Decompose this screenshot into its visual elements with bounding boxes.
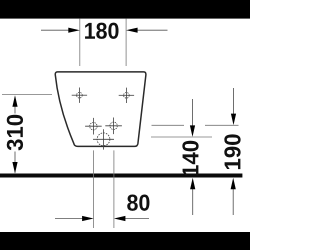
dim 80: extension lines — [94, 150, 114, 228]
dim 140: label — [182, 141, 198, 176]
wall line — [0, 174, 242, 178]
bottom letterbox bar — [0, 232, 250, 250]
hole top-right crosshair — [119, 88, 134, 103]
dim 80: arrowheads — [82, 216, 94, 221]
dim 310: label — [7, 115, 23, 151]
dim 190: upper dimension line — [233, 88, 235, 116]
hole mid-left crosshair — [85, 118, 102, 135]
dim 140: lower dimension line — [192, 186, 194, 215]
dim 140: upper dimension line — [192, 99, 194, 128]
dim 180: label — [85, 23, 118, 39]
dim 180: extension lines — [80, 19, 126, 66]
dim 310: dimension lines — [14, 97, 16, 173]
bidet body outline — [55, 72, 146, 146]
dim 140: upper arrowhead — [190, 125, 195, 136]
dim 80: label — [127, 195, 149, 211]
dim 190: upper arrowhead — [231, 114, 236, 126]
dim 140: extension line — [151, 136, 212, 138]
hole mid-right crosshair — [105, 118, 122, 135]
dim 190: extension lines — [152, 124, 239, 126]
dim 180: arrowheads — [68, 28, 80, 33]
dim 140: lower arrowhead — [190, 178, 195, 190]
dim 190: lower dimension line — [232, 186, 234, 215]
dim 310: arrowheads — [12, 95, 17, 107]
drain outlet crosshair — [93, 129, 114, 149]
dim 180: arrow lines — [41, 29, 168, 31]
dim 310: extension line — [2, 94, 52, 96]
top letterbox bar — [0, 0, 250, 19]
dim 190: lower arrowhead — [231, 178, 236, 190]
dim 80: arrow lines — [55, 218, 149, 220]
dim 190: label — [224, 134, 240, 169]
hole top-left crosshair — [72, 88, 87, 103]
